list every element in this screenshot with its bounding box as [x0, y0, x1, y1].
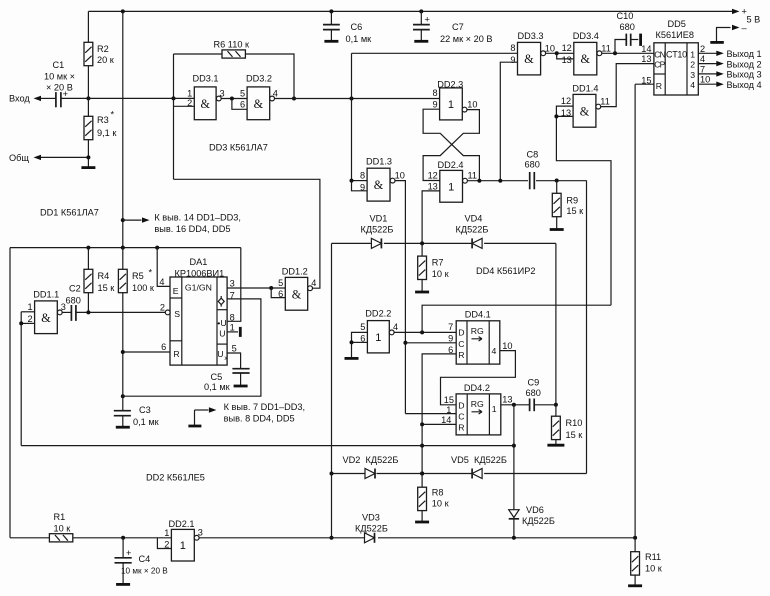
DA1 S inversion bubble: [165, 310, 170, 315]
svg-text:8: 8: [230, 313, 235, 323]
svg-text:К561ИЕ8: К561ИЕ8: [656, 30, 695, 40]
svg-text:DD1.1: DD1.1: [33, 290, 59, 300]
svg-text:6: 6: [278, 289, 283, 299]
wire R6 loop right: [245, 54, 294, 99]
svg-text:8: 8: [360, 170, 365, 180]
capacitor C6: [323, 11, 372, 43]
svg-text:К выв. 14 DD1–DD3,: К выв. 14 DD1–DD3,: [154, 213, 241, 223]
svg-text:8: 8: [432, 88, 437, 98]
wire R1 to DD2.1: [73, 537, 172, 539]
svg-text:•U: •U: [217, 318, 226, 328]
svg-text:VD5: VD5: [451, 455, 469, 465]
wire R8 top: [421, 474, 423, 488]
svg-text:Выход 4: Выход 4: [727, 80, 762, 90]
svg-text:1: 1: [448, 99, 454, 111]
svg-text:4: 4: [311, 278, 316, 288]
svg-text:5 В: 5 В: [747, 15, 761, 25]
junction Общ/R3: [86, 155, 90, 159]
svg-text:10 мк ×: 10 мк ×: [44, 71, 75, 81]
wire DD3.1 pin2 feedback vertical: [173, 98, 175, 179]
svg-text:20 к: 20 к: [97, 55, 115, 65]
junction C2/R4: [86, 310, 90, 314]
svg-text:680: 680: [526, 388, 541, 398]
common bar C10 right: [639, 34, 642, 46]
node +5V arrow: [732, 9, 740, 14]
junction DD2.4out/DD3.3pin9: [498, 179, 502, 183]
svg-text:4: 4: [492, 346, 497, 356]
ground under R7: [415, 291, 429, 294]
wire R3 bottom: [87, 140, 89, 167]
svg-text:C: C: [458, 339, 464, 349]
svg-text:CN: CN: [654, 49, 665, 59]
svg-text:11: 11: [600, 96, 610, 106]
junction C9/R10/VD4net: [554, 403, 558, 407]
wire DA1 pin5: [227, 353, 241, 368]
svg-text:E: E: [173, 286, 179, 296]
svg-text:680: 680: [525, 159, 540, 169]
svg-text:2: 2: [690, 60, 695, 70]
gate DD2.1: [164, 527, 203, 561]
wire VD1 VD4 line: [332, 242, 556, 244]
svg-text:11: 11: [468, 170, 478, 180]
junction supply annotation tap: [121, 218, 125, 222]
wire R7 top: [421, 243, 423, 256]
svg-text:RG: RG: [471, 326, 484, 336]
junction DD4.2 R: [420, 422, 424, 426]
junction DD2.2out/C9 net: [420, 330, 424, 334]
wire DD1.3 out down to DD4 clocks: [395, 181, 405, 414]
svg-text:&: &: [200, 97, 210, 111]
wire DD1.4 pin13: [556, 115, 573, 117]
wire R net down: [421, 424, 423, 473]
svg-text:C1: C1: [53, 60, 65, 70]
wire R7 bottom: [421, 280, 423, 292]
wire DD2.2 pin6 stub: [352, 341, 368, 343]
svg-text:C6: C6: [351, 22, 363, 32]
svg-text:11: 11: [601, 44, 611, 54]
capacitor C4: [115, 548, 169, 583]
junction DA1.3 / DD1.2 pins: [269, 286, 273, 290]
wire DD1.2 out up to oscillator gate line: [174, 179, 320, 288]
junction DD2.1out/VD6: [512, 536, 516, 540]
wire DD2.4 pin13 down: [422, 191, 440, 244]
wire DD2.2 pin5 stub: [352, 332, 368, 342]
node common pins annotation: [195, 409, 209, 411]
IC DD5 K561IE8 counter: [641, 19, 698, 95]
svg-text:*: *: [111, 110, 115, 120]
svg-text:D: D: [458, 328, 464, 338]
svg-text:Выход 3: Выход 3: [727, 70, 762, 80]
wire DA1 pin1 to common: [227, 331, 238, 333]
svg-text:× 20 В: × 20 В: [46, 83, 73, 93]
junction R1/C4: [121, 536, 125, 540]
svg-text:DD1 К561ЛА7: DD1 К561ЛА7: [40, 207, 99, 217]
svg-text:2: 2: [700, 44, 705, 54]
IC DD4.2 register: [441, 383, 501, 435]
svg-text:&: &: [580, 104, 590, 118]
wire DD4.1 C pin9: [405, 342, 456, 344]
gate DD1.3: [360, 168, 405, 201]
wire DD3.4 pin13 stub: [557, 53, 574, 59]
svg-text:DD2.2: DD2.2: [365, 309, 391, 319]
svg-text:13: 13: [561, 108, 571, 118]
junction input/DD3.1: [172, 96, 176, 100]
svg-text:R10: R10: [566, 418, 583, 428]
svg-text:Общ: Общ: [9, 153, 29, 163]
svg-text:DD3.2: DD3.2: [246, 74, 272, 84]
ground under C3: [116, 426, 130, 429]
svg-text:*: *: [149, 268, 153, 278]
wire DD4.2 C pin1: [405, 413, 456, 415]
svg-text:DD3.4: DD3.4: [573, 31, 599, 41]
capacitor C1: [44, 60, 75, 107]
wire DA1 R pin6: [123, 351, 170, 353]
wire DD1.1 pins vertical: [20, 312, 22, 446]
junction DD1.3out/DD4.1 C: [403, 341, 407, 345]
capacitor C10: [615, 11, 638, 53]
wire pin7 net: [123, 299, 261, 396]
wire DD5 output 2: [698, 52, 717, 54]
gate DD3.4: [562, 42, 611, 75]
svg-text:1: 1: [27, 302, 32, 312]
wire latch cross A: DD2.3 out to DD2.4 pin12: [423, 110, 479, 181]
svg-text:7: 7: [700, 64, 705, 74]
wire DD5 R net vertical: [634, 84, 636, 538]
wire R3 top: [87, 98, 89, 116]
svg-text:10 мк × 20 В: 10 мк × 20 В: [121, 566, 168, 575]
svg-text:Вход: Вход: [9, 94, 30, 104]
svg-text:R2: R2: [97, 44, 109, 54]
ground under C4: [116, 583, 130, 586]
wire DD3.2 pin6 stub: [232, 99, 247, 110]
svg-text:DD5: DD5: [668, 19, 686, 29]
wire DD1.4 out to DD5 CP: [601, 64, 654, 107]
wire R4 bottom: [87, 293, 89, 313]
junction DD2.2 pin6: [350, 340, 354, 344]
wire R10 bottom: [555, 440, 557, 445]
wire R9 bottom: [556, 217, 558, 229]
svg-text:C9: C9: [528, 378, 540, 388]
junction VD line / R7: [420, 241, 424, 245]
resistor R2: [84, 42, 115, 65]
common bar for 5V minus: [710, 41, 724, 44]
junction rail/R4: [86, 246, 90, 250]
gate DD3.2: [240, 87, 278, 120]
wire DD2.1 out east: [199, 537, 635, 539]
svg-text:C4: C4: [139, 554, 151, 564]
junction out13/VD6: [512, 403, 516, 407]
svg-text:КД522Б: КД522Б: [366, 455, 399, 465]
svg-text:12: 12: [428, 170, 438, 180]
wire rail left frame down to R1 line: [9, 248, 11, 538]
svg-text:&: &: [292, 287, 302, 301]
svg-text:9,1 к: 9,1 к: [97, 128, 117, 138]
wire DD3.3 out: [546, 52, 574, 54]
svg-text:1: 1: [180, 540, 186, 552]
junction R5/C3/pin7: [121, 394, 125, 398]
capacitor C2: [66, 284, 81, 321]
wire R2 top: [87, 11, 89, 42]
wire R2 bottom: [87, 66, 89, 99]
junction R net / feedback line: [420, 444, 424, 448]
wire C8 net to VD5 line: [586, 181, 588, 474]
IC DD4.1 register: [448, 310, 500, 365]
junction C8/R9: [555, 179, 559, 183]
svg-text:15 к: 15 к: [566, 206, 584, 216]
wire DD3.2 out to DD2.3: [275, 98, 440, 100]
wire DD4.1 out10 to DD4.2 D15: [441, 351, 516, 405]
svg-text:DD3.1: DD3.1: [193, 74, 219, 84]
junction DD3.3out/pin13 stub: [555, 51, 559, 55]
junction DD1.4 pin13: [554, 114, 558, 118]
svg-text:R6 110 к: R6 110 к: [214, 40, 250, 50]
svg-text:6: 6: [240, 99, 245, 109]
diode VD3: [365, 533, 375, 543]
gate DD3.3: [510, 42, 555, 75]
wire R9 top: [556, 181, 558, 194]
svg-text:DD4.2: DD4.2: [464, 383, 490, 393]
wire DD2.4 out east: [467, 180, 586, 182]
DA1 discharge symbol: [218, 296, 224, 307]
ground under R8: [415, 521, 429, 524]
wire VD2 R8 VD5 line: [332, 473, 587, 475]
svg-text:C3: C3: [139, 405, 151, 415]
gate DD1.1: [27, 301, 65, 334]
svg-text:9: 9: [448, 334, 453, 344]
wire DA1 pin3 out: [227, 287, 285, 289]
svg-text:4: 4: [393, 322, 398, 332]
wire VD4 net down to C9 node: [555, 243, 557, 404]
gate DD1.2: [278, 277, 316, 310]
svg-text:8: 8: [510, 43, 515, 53]
svg-text:0,1 мк: 0,1 мк: [346, 34, 373, 44]
svg-text:13: 13: [562, 55, 572, 65]
junction VD2 line / R8: [420, 472, 424, 476]
ground under C6: [324, 40, 338, 43]
svg-text:DD2.1: DD2.1: [169, 519, 195, 529]
junction DD1.3 pins: [350, 179, 354, 183]
junction R6/DD3.2 out: [292, 97, 296, 101]
svg-text:&: &: [581, 52, 591, 66]
svg-text:DD1.4: DD1.4: [572, 83, 598, 93]
wire DD4.1 R pin6: [422, 354, 456, 425]
wire DD4.2 out13: [501, 404, 556, 406]
wire R5 top: [122, 248, 124, 270]
wire R1 line left: [10, 537, 49, 539]
wire latch cross B: DD2.4 out to DD2.3 pin9: [423, 109, 479, 181]
wire DD1.1 feedback line: [21, 445, 514, 447]
resistor R4: [84, 269, 115, 293]
svg-text:&: &: [41, 311, 51, 325]
svg-text:R3: R3: [97, 115, 109, 125]
svg-text:3: 3: [220, 88, 225, 98]
svg-text:2: 2: [160, 303, 165, 313]
svg-text:VD1: VD1: [370, 214, 388, 224]
svg-text:C2: C2: [69, 284, 81, 294]
svg-text:4: 4: [700, 54, 705, 64]
junction R5/DA1 R pin: [121, 350, 125, 354]
resistor R5: [118, 269, 154, 293]
svg-text:1: 1: [230, 323, 235, 333]
junction top rail / +5 feed: [121, 9, 125, 13]
svg-text:R7: R7: [432, 258, 444, 268]
wire DD5 output 4: [698, 63, 717, 65]
wire DD5 output 10: [698, 83, 717, 85]
wire R5 bottom: [122, 293, 124, 397]
svg-text:9: 9: [510, 55, 515, 65]
diode VD4: [472, 238, 482, 248]
wire DD4.2 R pin14: [422, 423, 456, 425]
wire DA1 E pin4: [157, 248, 170, 287]
junction VD2 line / x331: [330, 472, 334, 476]
svg-text:1: 1: [690, 49, 695, 59]
svg-text:C5: C5: [211, 372, 223, 382]
wire +5 rail to DA1: [10, 247, 241, 249]
svg-text:&: &: [254, 97, 264, 111]
wire DD3.1 out: [221, 98, 247, 100]
svg-text:2: 2: [187, 98, 192, 108]
svg-text:C10: C10: [617, 11, 634, 21]
resistor R11: [631, 552, 663, 575]
svg-text:выв. 16 DD4, DD5: выв. 16 DD4, DD5: [154, 224, 230, 234]
resistor R1: [49, 512, 72, 542]
svg-text:5: 5: [240, 88, 245, 98]
junction DD3.4out/C10: [613, 51, 617, 55]
wire DD4.2out down: [513, 405, 515, 538]
capacitor C8: [525, 150, 540, 190]
svg-text:10: 10: [545, 44, 555, 54]
svg-text:R9: R9: [566, 196, 578, 206]
svg-text:R: R: [656, 81, 662, 91]
svg-text:C: C: [458, 412, 464, 422]
wire DD3.4 out to DD5 pin14: [602, 52, 654, 54]
svg-text:13: 13: [428, 181, 438, 191]
resistor R10: [552, 416, 584, 440]
svg-text:&: &: [374, 178, 384, 192]
diode VD2: [365, 469, 375, 479]
wire R8 bottom: [421, 511, 423, 522]
diode VD1: [371, 238, 381, 248]
svg-text:R4: R4: [98, 271, 110, 281]
junction top rail / C6: [329, 9, 333, 13]
svg-text:12: 12: [562, 43, 572, 53]
ground under C7: [414, 40, 428, 43]
svg-text:VD2: VD2: [343, 455, 361, 465]
svg-text:10: 10: [502, 341, 512, 351]
resistor R7: [418, 256, 450, 279]
svg-text:1: 1: [375, 332, 381, 344]
svg-text:R: R: [458, 423, 464, 433]
wire DD2.2 pins to common: [351, 342, 353, 357]
wire DD1.4 input net jog: [556, 106, 611, 305]
svg-text:3: 3: [230, 278, 235, 288]
junction DD1.1 pin2: [19, 321, 23, 325]
svg-text:КД522Б: КД522Б: [474, 455, 507, 465]
junction DD3.1out/pin6 stub: [230, 97, 234, 101]
svg-text:10 к: 10 к: [432, 499, 450, 509]
svg-text:0,1 мк: 0,1 мк: [133, 417, 160, 427]
svg-text:15: 15: [444, 395, 454, 405]
junction DD2.4out/cross: [477, 179, 481, 183]
wire R11 top: [634, 538, 636, 552]
svg-text:DD1.2: DD1.2: [282, 267, 308, 277]
svg-text:1: 1: [187, 88, 192, 98]
junction x331 / DD2.1 out line: [330, 536, 334, 540]
svg-text:10 к: 10 к: [432, 269, 450, 279]
svg-text:+: +: [425, 15, 430, 25]
resistor R8: [418, 487, 450, 510]
svg-text:R: R: [458, 350, 464, 360]
junction DD2.1out/R11/DD5R: [633, 536, 637, 540]
wire R6 loop left: [173, 54, 175, 98]
wire DD1.1 pin1: [21, 311, 34, 313]
svg-text:U: U: [219, 329, 225, 339]
resistor R3: [84, 115, 117, 140]
svg-text:R11: R11: [645, 552, 661, 562]
svg-text:1: 1: [448, 181, 454, 193]
ground under R10: [547, 444, 564, 447]
svg-text:DA1: DA1: [190, 257, 208, 267]
svg-text:VD4: VD4: [465, 214, 483, 224]
wire DD2.2 out to DD4.1 D: [394, 331, 456, 333]
junction rail/DA1 E: [155, 246, 159, 250]
svg-text:VD3: VD3: [362, 513, 380, 523]
junction input/R2R3: [86, 96, 90, 100]
svg-text:1: 1: [492, 404, 497, 414]
svg-text:+: +: [126, 548, 131, 558]
wire C3 top: [122, 396, 124, 411]
svg-text:2: 2: [164, 540, 169, 550]
svg-text:КД522Б: КД522Б: [522, 516, 555, 526]
capacitor C3: [114, 405, 160, 427]
svg-text:C7: C7: [452, 22, 464, 32]
svg-text:6: 6: [161, 342, 166, 352]
ground under DD2.2 inputs: [345, 357, 359, 360]
svg-text:5: 5: [232, 344, 237, 354]
wire DD1.3 pin8: [352, 180, 368, 182]
wire +5 feed vertical: [122, 11, 124, 247]
capacitor C7: [413, 11, 492, 43]
svg-text:12: 12: [561, 96, 571, 106]
common bar annotation: [188, 425, 201, 428]
wire DD3.1 pin2: [174, 105, 195, 107]
gate DD2.2: [360, 321, 398, 353]
wire x331 vertical: [331, 243, 333, 537]
svg-text:–: –: [742, 23, 748, 33]
svg-text:10 к: 10 к: [54, 523, 72, 533]
svg-text:DD2 К561ЛЕ5: DD2 К561ЛЕ5: [146, 473, 205, 483]
svg-text:0,1 мк: 0,1 мк: [204, 382, 231, 392]
svg-text:DD3 К561ЛА7: DD3 К561ЛА7: [209, 143, 268, 153]
svg-text:DD1.3: DD1.3: [366, 156, 392, 166]
gate DD3.1: [187, 87, 224, 120]
svg-text:U: U: [217, 349, 223, 359]
svg-text:DD4.1: DD4.1: [465, 310, 491, 320]
svg-text:R8: R8: [432, 488, 444, 498]
wire input net: [61, 97, 194, 99]
svg-text:&: &: [524, 52, 534, 66]
svg-text:14: 14: [641, 44, 651, 54]
gate DD2.4: [428, 170, 477, 202]
IC DA1 KR1006VI1 timer: [170, 257, 228, 365]
svg-text:14: 14: [441, 415, 451, 425]
ground under C5: [234, 385, 248, 388]
wire DD5 pin15 R: [635, 83, 654, 85]
svg-text:9: 9: [432, 99, 437, 109]
svg-text:22 мк × 20 В: 22 мк × 20 В: [440, 34, 492, 44]
svg-text:10 к: 10 к: [645, 564, 663, 574]
wire DD3.3 pin8: [352, 52, 518, 54]
